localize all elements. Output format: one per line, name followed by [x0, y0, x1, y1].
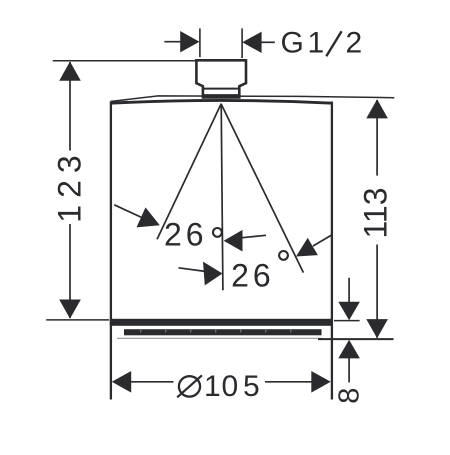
- spray right angle line: [221, 104, 303, 273]
- angle lower-right arrow: [296, 238, 318, 257]
- svg-text:1: 1: [308, 27, 325, 60]
- angle upper-right tail line: [241, 235, 266, 238]
- angle upper-left arrow: [137, 207, 160, 227]
- body left edge: [110, 102, 112, 400]
- 8 upper arrow: [338, 302, 360, 321]
- svg-text:123: 123: [52, 148, 88, 222]
- 123 bottom extension line: [46, 319, 109, 321]
- G1/2 right arrow: [242, 32, 261, 53]
- 123 bottom arrow: [59, 300, 81, 319]
- 8 top extension line: [334, 320, 360, 322]
- G1/2 label: [281, 27, 363, 60]
- diameter 105 left arrow: [112, 371, 131, 393]
- angle upper-right arrow: [224, 230, 243, 252]
- 123 dimension line lower: [69, 224, 71, 318]
- bottom plate band: [110, 319, 333, 326]
- connector nut outline: [196, 60, 246, 97]
- spray centre line: [221, 104, 223, 291]
- 113 bottom arrow: [366, 319, 388, 338]
- 123 dimension line upper: [69, 62, 71, 151]
- svg-text:2: 2: [346, 27, 363, 60]
- svg-text:8: 8: [333, 388, 365, 404]
- svg-text:1: 1: [204, 370, 221, 403]
- G1/2 left arrow: [180, 31, 199, 52]
- 8 lower dimension line: [348, 357, 350, 382]
- 8 upper dimension line: [348, 278, 350, 303]
- G1/2 left tail line: [164, 41, 182, 43]
- G1/2 left extension line: [199, 28, 201, 57]
- diameter 105 right tail line: [265, 381, 314, 383]
- angle lower-left tail line: [179, 268, 207, 272]
- angle upper degree ring: [213, 228, 222, 237]
- connector base line: [203, 94, 239, 97]
- body right edge: [331, 102, 333, 400]
- G1/2 right tail line: [260, 41, 275, 43]
- body top chord: [110, 100, 333, 103]
- svg-text:26: 26: [231, 257, 275, 293]
- diameter 105 label: [177, 370, 259, 403]
- nozzle band gaps: [140, 330, 291, 333]
- diameter 105 left tail line: [128, 381, 174, 383]
- svg-text:G: G: [281, 27, 304, 60]
- svg-text:5: 5: [243, 370, 260, 403]
- 113 dimension line lower: [376, 245, 378, 338]
- G1/2 right extension line: [241, 28, 243, 58]
- angle lower degree ring: [279, 251, 288, 260]
- svg-text:26: 26: [164, 217, 208, 253]
- angle lower-right tail line: [313, 235, 332, 246]
- 113 dimension line upper: [376, 100, 378, 176]
- svg-text:113: 113: [358, 187, 394, 238]
- body top dome and 113 extension line: [111, 96, 395, 102]
- 8 lower arrow: [338, 340, 360, 359]
- diameter 105 right arrow: [311, 371, 330, 393]
- angle upper-left tail line: [114, 205, 146, 220]
- 123 top extension line: [53, 60, 197, 62]
- spray left angle line: [157, 104, 221, 239]
- svg-text:0: 0: [222, 370, 239, 403]
- angle lower-left arrow: [203, 262, 223, 286]
- spray nozzle band: [124, 329, 322, 335]
- connector inner line: [203, 88, 239, 90]
- 123 top arrow: [59, 62, 81, 81]
- 113 top arrow: [366, 99, 388, 118]
- bottom face extension line right: [318, 338, 394, 340]
- spray face faint bottom line: [117, 337, 322, 339]
